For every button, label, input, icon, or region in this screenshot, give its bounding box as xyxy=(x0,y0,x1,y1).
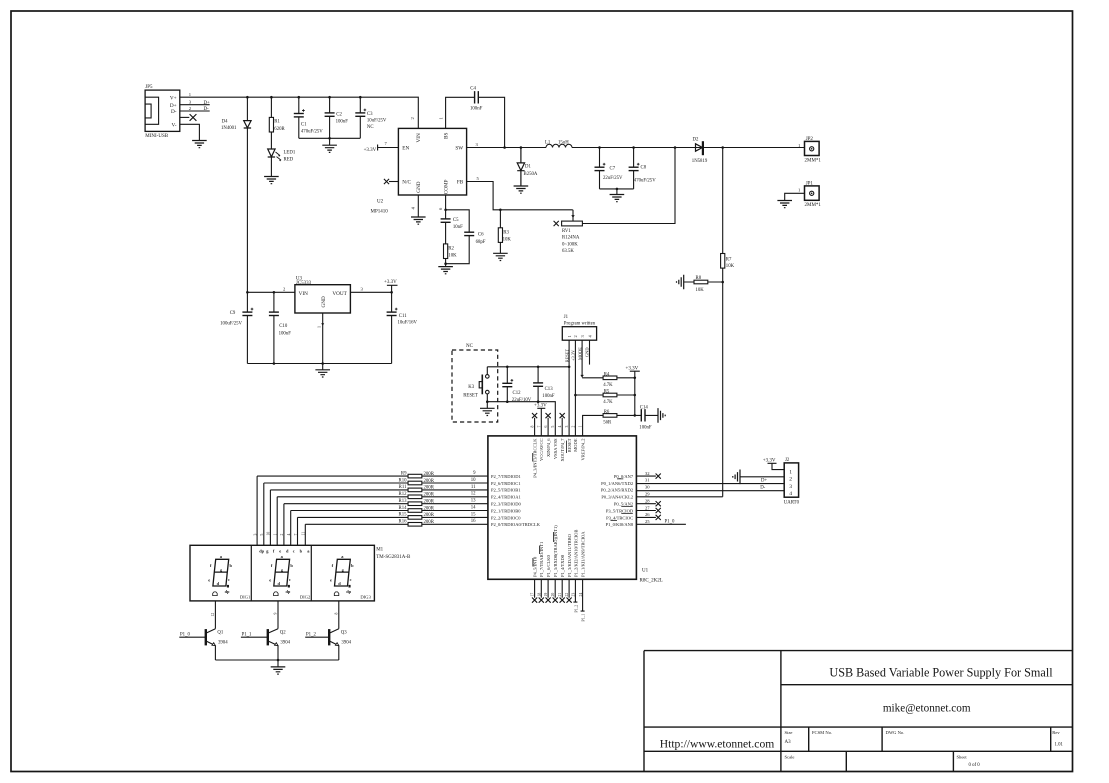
svg-text:P0_3/AN4/CKL2: P0_3/AN4/CKL2 xyxy=(601,495,633,500)
svg-text:P1_5/RXD0(TRAIO)(INT1): P1_5/RXD0(TRAIO)(INT1) xyxy=(553,525,558,577)
svg-text:7: 7 xyxy=(537,426,541,428)
svg-text:BS: BS xyxy=(443,133,449,139)
svg-text:P1_2/KI2/AN10/TRCIOB: P1_2/KI2/AN10/TRCIOB xyxy=(574,529,579,577)
wire JP5 pin3 D+ stub xyxy=(180,104,210,106)
svg-text:1: 1 xyxy=(567,335,572,337)
wire U1 pin29 to D2/R7 node xyxy=(636,496,722,498)
wire K3 gnd row to U1 VSS xyxy=(487,402,555,436)
svg-text:DWG No.: DWG No. xyxy=(886,730,905,735)
svg-text:12: 12 xyxy=(471,492,476,497)
wire M1 DIG1 cathode to Q1 xyxy=(214,601,216,629)
svg-text:Rev: Rev xyxy=(1052,730,1060,735)
wire U2 BS to C4 xyxy=(446,97,505,147)
svg-text:c: c xyxy=(293,549,295,554)
svg-text:e: e xyxy=(208,577,210,582)
U1 top pin names xyxy=(532,438,585,478)
wire C1-C3 ground rail xyxy=(299,138,361,145)
svg-text:C12: C12 xyxy=(513,391,522,396)
svg-text:1N4001: 1N4001 xyxy=(221,126,237,131)
wire JP1 to ground xyxy=(785,193,805,200)
U1 top pin 2 VCC +3.3V xyxy=(537,408,545,436)
svg-text:R11: R11 xyxy=(399,485,407,490)
ground C7/C8 xyxy=(610,195,625,202)
svg-text:D-: D- xyxy=(760,486,765,491)
svg-text:19: 19 xyxy=(544,593,548,597)
svg-text:D2: D2 xyxy=(693,138,699,143)
svg-text:P2_0/TRDIOA0/TRDCLK: P2_0/TRDIOA0/TRDCLK xyxy=(491,522,541,527)
wire C7/C8 ground rail xyxy=(600,189,634,195)
IC U2 MP1410 xyxy=(398,128,466,195)
svg-text:P0_2/AN5/RXD2: P0_2/AN5/RXD2 xyxy=(601,488,633,493)
resistor R8 10K with ground xyxy=(684,281,723,283)
wire U3 VIN row xyxy=(247,291,295,293)
IC U3 JC5333 regulator xyxy=(295,285,351,313)
capacitor C13 100nF xyxy=(537,367,539,402)
svg-text:0 of 0: 0 of 0 xyxy=(969,763,981,768)
svg-text:470uF/25V: 470uF/25V xyxy=(634,179,656,184)
U1 top pin 3 XIN (X) xyxy=(547,418,549,436)
U1 bottom pins 17-22 stubs X xyxy=(535,579,570,598)
svg-text:R2: R2 xyxy=(448,247,454,252)
svg-text:1: 1 xyxy=(317,326,322,328)
svg-text:C7: C7 xyxy=(610,167,616,172)
ground J2 (sideways left) xyxy=(733,470,740,485)
svg-text:+3.3V: +3.3V xyxy=(534,404,547,409)
svg-text:22: 22 xyxy=(565,593,569,597)
svg-text:P3_4/TRCIOC: P3_4/TRCIOC xyxy=(606,515,633,520)
svg-text:10uF/16V: 10uF/16V xyxy=(398,321,418,326)
svg-text:4: 4 xyxy=(287,534,291,536)
svg-text:27: 27 xyxy=(645,505,650,510)
resistor R15 200R with row wire xyxy=(298,517,488,545)
svg-text:10K: 10K xyxy=(448,254,457,259)
svg-text:dp: dp xyxy=(259,549,264,554)
svg-text:D+: D+ xyxy=(761,479,767,484)
svg-text:2: 2 xyxy=(789,477,792,483)
svg-text:620R: 620R xyxy=(274,127,285,132)
svg-text:8: 8 xyxy=(531,426,535,428)
svg-text:200R: 200R xyxy=(424,472,435,477)
svg-text:1: 1 xyxy=(274,534,278,536)
svg-text:7: 7 xyxy=(294,534,298,536)
svg-text:11: 11 xyxy=(471,485,476,490)
svg-text:+3.3V: +3.3V xyxy=(384,280,397,285)
capacitor C3 10uF/25V NC xyxy=(359,97,361,138)
svg-text:V+: V+ xyxy=(170,95,177,101)
svg-text:4.7K: 4.7K xyxy=(603,383,613,388)
svg-text:3: 3 xyxy=(565,426,569,428)
svg-text:1: 1 xyxy=(579,426,583,428)
svg-text:C4: C4 xyxy=(470,87,476,92)
U1 pin 27 stub X xyxy=(636,510,656,512)
svg-text:470uF/25V: 470uF/25V xyxy=(301,129,323,134)
svg-text:DIG1: DIG1 xyxy=(240,595,251,600)
U1 top pin 5 XOUT (X) xyxy=(561,418,563,436)
svg-text:P0_0/AN7: P0_0/AN7 xyxy=(614,474,634,479)
U1 pin 32 stub X xyxy=(636,475,656,477)
svg-text:USB Based Variable Power Suppl: USB Based Variable Power Supply For Smal… xyxy=(829,666,1053,680)
K3 button xyxy=(486,375,490,379)
svg-text:R1: R1 xyxy=(274,119,280,124)
svg-text:VIN: VIN xyxy=(299,291,308,297)
svg-text:200R: 200R xyxy=(424,513,435,518)
svg-text:3: 3 xyxy=(476,142,479,147)
svg-text:5: 5 xyxy=(551,426,555,428)
svg-text:20: 20 xyxy=(551,593,555,597)
resistor R6 56R xyxy=(583,415,635,436)
svg-text:5: 5 xyxy=(477,176,480,181)
svg-text:1N5819: 1N5819 xyxy=(692,159,708,164)
svg-text:21: 21 xyxy=(558,593,562,597)
wire J1 +3.3V/MODE line to U1 xyxy=(574,340,576,436)
diode D4 1N4001 xyxy=(244,121,251,128)
display module M1 TM-SG2831A-B xyxy=(190,545,374,601)
wire U1 pin31 TXD2 to J2 D+ xyxy=(636,483,784,485)
resistor R12 200R with row wire xyxy=(277,497,488,546)
svg-text:2MM*1: 2MM*1 xyxy=(805,203,822,208)
svg-text:C13: C13 xyxy=(545,387,554,392)
wire emitter rail xyxy=(215,660,338,667)
svg-text:LED1: LED1 xyxy=(284,151,296,156)
U1 pin 28 stub X xyxy=(636,503,656,505)
ground R3 xyxy=(493,253,508,260)
diode D1 B250A xyxy=(517,148,524,187)
svg-text:NC: NC xyxy=(466,344,474,349)
ground U2 xyxy=(411,217,426,224)
svg-text:R13: R13 xyxy=(399,499,408,504)
svg-text:C6: C6 xyxy=(478,232,484,237)
svg-text:P1_1: P1_1 xyxy=(582,614,586,622)
resistor R7 10K xyxy=(721,253,725,268)
7-segment digit DIG2 xyxy=(269,554,293,596)
svg-text:P1_0: P1_0 xyxy=(665,520,675,525)
svg-text:22uF/25V: 22uF/25V xyxy=(603,176,623,181)
svg-text:3904: 3904 xyxy=(218,641,228,646)
svg-text:R16: R16 xyxy=(399,520,408,525)
LED LED1 RED xyxy=(268,149,275,157)
svg-text:C10: C10 xyxy=(279,324,288,329)
resistor R3 10K xyxy=(499,210,501,254)
svg-text:15uH: 15uH xyxy=(558,140,569,145)
svg-text:J1: J1 xyxy=(564,315,569,320)
svg-text:P1_4/TXD0: P1_4/TXD0 xyxy=(560,554,565,577)
svg-text:V-: V- xyxy=(172,122,177,128)
svg-text:8: 8 xyxy=(334,613,338,615)
diode D2 1N5819 xyxy=(696,144,703,151)
svg-text:P2_2/TRDIOC0: P2_2/TRDIOC0 xyxy=(491,515,521,520)
wire U2 GND pin to ground xyxy=(417,195,419,217)
svg-text:2: 2 xyxy=(283,287,286,292)
svg-text:4: 4 xyxy=(558,426,562,428)
svg-text:Http://www.etonnet.com: Http://www.etonnet.com xyxy=(660,738,775,751)
potentiometer RV1 R124NA xyxy=(572,210,574,218)
svg-text:R8: R8 xyxy=(696,276,702,281)
capacitor C11 10uF/16V xyxy=(391,292,393,363)
svg-text:RESET: RESET xyxy=(564,349,569,363)
svg-text:12: 12 xyxy=(211,613,215,617)
svg-text:b: b xyxy=(300,549,303,554)
svg-text:10K: 10K xyxy=(696,288,705,293)
svg-text:C8: C8 xyxy=(641,166,647,171)
svg-text:16: 16 xyxy=(471,519,476,524)
svg-text:P0_1/AN6/TXD2: P0_1/AN6/TXD2 xyxy=(601,481,633,486)
capacitor C9 100uF/25V xyxy=(246,292,248,363)
svg-text:VOUT: VOUT xyxy=(332,291,347,297)
svg-text:200R: 200R xyxy=(424,486,435,491)
wire J1 MODE to R4 xyxy=(581,340,583,375)
svg-text:200R: 200R xyxy=(424,520,435,525)
wire SW output rail xyxy=(467,147,723,149)
capacitor C10 100nF xyxy=(273,292,275,363)
resistor R9 200R with row wire xyxy=(257,476,488,545)
svg-text:C14: C14 xyxy=(640,405,649,410)
wire U2 FB to divider xyxy=(467,182,573,210)
wire J2 pin2 to ground xyxy=(740,476,784,478)
svg-text:5: 5 xyxy=(260,534,264,536)
svg-text:GND: GND xyxy=(416,181,422,192)
svg-text:3: 3 xyxy=(253,534,257,536)
resistor R10 200R with row wire xyxy=(264,483,488,545)
power +3.3V at U3 xyxy=(387,284,398,286)
svg-text:JP2: JP2 xyxy=(806,137,814,142)
junction dots top rail xyxy=(246,96,362,99)
IC U1 R8C_2K2L xyxy=(488,436,637,579)
wire U1 pin30 RXD2 to J2 D- xyxy=(636,490,784,492)
X no-connect JP5 pin4 xyxy=(190,114,197,121)
wire D4 branch vertical xyxy=(246,97,248,292)
transistor Q1 3904 xyxy=(179,636,206,638)
svg-text:P2_7/TRDIOD1: P2_7/TRDIOD1 xyxy=(491,474,521,479)
svg-text:100nF: 100nF xyxy=(336,120,349,125)
svg-text:28: 28 xyxy=(645,498,650,503)
svg-text:P3_5/TRCIOD: P3_5/TRCIOD xyxy=(606,508,634,513)
svg-text:U2: U2 xyxy=(377,199,384,204)
wire U3 VOUT to +3.3V xyxy=(350,285,391,292)
svg-text:C2: C2 xyxy=(336,113,342,118)
connector JP1 2MM*1 xyxy=(805,186,820,200)
svg-text:4: 4 xyxy=(587,335,592,338)
JP5 labels xyxy=(145,85,210,139)
svg-text:100uF/25V: 100uF/25V xyxy=(220,321,242,326)
svg-text:13: 13 xyxy=(471,499,476,504)
svg-text:0~100K: 0~100K xyxy=(562,242,578,247)
wire reset row xyxy=(487,366,569,368)
U1 top pin 1 (X) xyxy=(534,418,536,436)
svg-text:a: a xyxy=(220,554,223,559)
power +3.3V at J2 xyxy=(768,463,785,469)
wire U1 pin 23 stub P1_2 xyxy=(573,579,577,602)
svg-text:P1_1: P1_1 xyxy=(242,633,252,638)
svg-text:DIG2: DIG2 xyxy=(300,595,311,600)
U1 left pin names xyxy=(491,474,541,527)
svg-text:GND: GND xyxy=(585,347,590,357)
resistor R14 200R with row wire xyxy=(291,511,488,546)
svg-text:MP1410: MP1410 xyxy=(371,209,389,214)
svg-text:Q1: Q1 xyxy=(217,631,223,636)
svg-text:JC5333: JC5333 xyxy=(296,281,312,286)
resistor R5 4.7K xyxy=(575,394,634,396)
svg-text:g: g xyxy=(266,549,269,554)
net labels D+ D- xyxy=(760,479,767,491)
U1 bottom pin numbers xyxy=(531,593,583,597)
ground R8 (sideways) xyxy=(677,275,684,290)
ground U3 rail xyxy=(315,370,330,377)
svg-text:C3: C3 xyxy=(367,112,373,117)
transistor Q2 3904 xyxy=(241,636,268,638)
svg-text:2: 2 xyxy=(573,335,578,337)
U1 pin 26 stub X xyxy=(636,516,656,518)
svg-text:N/C: N/C xyxy=(402,180,411,186)
svg-text:B250A: B250A xyxy=(524,172,538,177)
U1 bottom pin names xyxy=(532,525,585,577)
svg-text:3904: 3904 xyxy=(341,641,351,646)
svg-text:Sheet: Sheet xyxy=(957,755,968,760)
svg-text:10: 10 xyxy=(267,532,271,536)
svg-text:MINI-USB: MINI-USB xyxy=(145,134,168,139)
svg-text:4: 4 xyxy=(411,207,416,210)
resistor R2 10K xyxy=(444,244,448,259)
wire M1 DIG3 cathode to Q3 xyxy=(338,601,340,629)
wire VBUS top rail xyxy=(180,97,418,128)
svg-text:10nF: 10nF xyxy=(453,225,463,230)
ground C14 (sideways right) xyxy=(658,408,665,423)
svg-text:d: d xyxy=(217,581,220,586)
wire JP5 pin2 D- stub xyxy=(180,110,210,112)
svg-text:3: 3 xyxy=(580,335,585,338)
svg-text:D4: D4 xyxy=(222,120,228,125)
svg-text:D-: D- xyxy=(171,109,177,115)
svg-text:VIN: VIN xyxy=(416,133,422,142)
svg-text:100nF: 100nF xyxy=(542,394,555,399)
svg-text:25: 25 xyxy=(645,519,650,524)
svg-text:1: 1 xyxy=(798,188,801,193)
U1 top pin numbers xyxy=(531,426,583,428)
svg-text:7: 7 xyxy=(385,141,388,146)
svg-text:R6: R6 xyxy=(604,410,610,415)
svg-text:XOUT/P4_7: XOUT/P4_7 xyxy=(560,438,565,462)
svg-text:P0_5/AN2: P0_5/AN2 xyxy=(614,502,633,507)
svg-text:2MM*1: 2MM*1 xyxy=(805,158,822,163)
svg-text:VCC/AVCC: VCC/AVCC xyxy=(539,439,544,461)
svg-text:+3.3V: +3.3V xyxy=(626,366,639,371)
svg-text:P1_1/KI1/AN9/TRCIOA: P1_1/KI1/AN9/TRCIOA xyxy=(581,531,586,577)
ground emitters xyxy=(271,667,286,674)
svg-text:3: 3 xyxy=(789,484,792,490)
capacitor C7 22uF/25V xyxy=(599,148,601,189)
svg-text:RV1: RV1 xyxy=(562,229,571,234)
svg-text:P1_3/KI3/AN11/TRBO: P1_3/KI3/AN11/TRBO xyxy=(567,533,572,577)
ground D1 xyxy=(514,186,529,193)
svg-text:P2_4/TRDIOA1: P2_4/TRDIOA1 xyxy=(491,495,521,500)
resistor R1 620R xyxy=(269,117,273,132)
svg-text:Scale: Scale xyxy=(785,755,795,760)
svg-text:P2_1/TRDIOB0: P2_1/TRDIOB0 xyxy=(491,508,521,513)
wire U1 pin 25 P1_0 stub xyxy=(636,523,686,525)
ground K3 xyxy=(486,402,488,409)
svg-text:P1_2: P1_2 xyxy=(306,633,316,638)
svg-text:11: 11 xyxy=(302,532,306,536)
connector J2 UART0 xyxy=(784,463,798,497)
svg-text:COMP: COMP xyxy=(443,179,449,194)
svg-text:200R: 200R xyxy=(424,506,435,511)
svg-text:Q2: Q2 xyxy=(280,631,286,636)
svg-text:31: 31 xyxy=(645,478,650,483)
M1 segment pin labels xyxy=(259,549,310,554)
svg-text:R7: R7 xyxy=(726,257,732,262)
resistor R16 200R with row wire xyxy=(305,524,488,545)
svg-text:L1: L1 xyxy=(545,140,551,145)
svg-text:Size: Size xyxy=(785,730,793,735)
svg-text:10: 10 xyxy=(471,478,476,483)
svg-text:P1_0: P1_0 xyxy=(180,633,190,638)
svg-text:2: 2 xyxy=(280,534,284,536)
X no-connect U2 N/C pin xyxy=(389,181,398,183)
svg-text:U1: U1 xyxy=(642,569,649,574)
svg-text:6: 6 xyxy=(544,426,548,428)
svg-text:3904: 3904 xyxy=(280,641,290,646)
svg-text:R3: R3 xyxy=(503,230,509,235)
svg-text:GND: GND xyxy=(321,296,327,307)
wire U2 EN with +3.3V net label xyxy=(378,145,399,151)
svg-text:P1_2: P1_2 xyxy=(574,605,578,613)
svg-text:R12: R12 xyxy=(399,492,408,497)
svg-text:SW: SW xyxy=(455,146,463,152)
svg-text:1: 1 xyxy=(789,470,792,476)
svg-text:1: 1 xyxy=(439,117,444,120)
svg-text:200R: 200R xyxy=(424,493,435,498)
ground LED1 xyxy=(264,177,279,184)
svg-text:10uF/25V: 10uF/25V xyxy=(367,118,387,123)
svg-text:30: 30 xyxy=(645,485,650,490)
capacitor C14 100nF xyxy=(635,414,658,416)
svg-text:68pF: 68pF xyxy=(476,240,486,245)
svg-text:D+: D+ xyxy=(170,103,177,109)
svg-text:3: 3 xyxy=(189,100,192,105)
svg-text:b: b xyxy=(230,563,233,568)
svg-text:f: f xyxy=(210,563,212,568)
svg-text:2: 2 xyxy=(410,117,415,120)
U1 right pin names xyxy=(601,474,634,527)
ground input caps xyxy=(322,145,337,152)
ground JP1 xyxy=(777,201,792,208)
svg-text:P2_6/TRDIOC1: P2_6/TRDIOC1 xyxy=(491,481,521,486)
svg-text:FCSM No.: FCSM No. xyxy=(812,730,832,735)
svg-text:P1_0/KI0/AN8: P1_0/KI0/AN8 xyxy=(606,522,634,527)
svg-text:56R: 56R xyxy=(603,421,612,426)
svg-text:mike@etonnet.com: mike@etonnet.com xyxy=(883,703,971,715)
ground C5/R2/C6 xyxy=(445,264,447,267)
capacitor C6 68pF xyxy=(446,210,470,264)
JP5 usb bracket symbol xyxy=(145,97,159,124)
svg-text:VSSA VSS: VSSA VSS xyxy=(553,438,558,459)
svg-text:3: 3 xyxy=(361,287,364,292)
svg-text:200R: 200R xyxy=(424,500,435,505)
svg-text:VREF/P4_2: VREF/P4_2 xyxy=(580,439,585,461)
svg-text:RESET: RESET xyxy=(567,438,572,452)
svg-text:M1: M1 xyxy=(376,548,383,553)
svg-text:C9: C9 xyxy=(230,311,236,316)
svg-text:+3.3V: +3.3V xyxy=(571,349,576,361)
resistor R4 4.7K xyxy=(582,377,635,379)
svg-text:R15: R15 xyxy=(399,513,408,518)
wire U3 bottom ground rail xyxy=(247,364,391,370)
capacitor C4 100nF xyxy=(475,91,479,103)
svg-text:K3: K3 xyxy=(468,385,474,390)
svg-text:C11: C11 xyxy=(399,314,407,319)
svg-text:4.7K: 4.7K xyxy=(603,400,613,405)
svg-text:+3.3V: +3.3V xyxy=(364,148,377,153)
svg-text:9: 9 xyxy=(473,471,476,476)
